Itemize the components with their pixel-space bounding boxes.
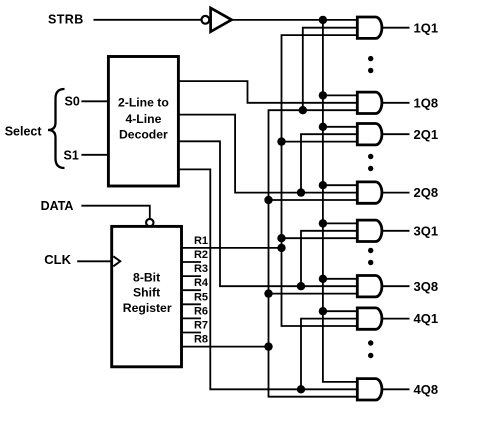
junction R1 stub bbox=[277, 244, 285, 252]
svg-text:4Q8: 4Q8 bbox=[414, 382, 439, 397]
svg-text:Decoder: Decoder bbox=[119, 128, 168, 142]
wire STRB branch 4Q8 bbox=[322, 381, 357, 383]
wire STRB vertical rail bbox=[322, 20, 324, 382]
wire row1 riser to 1Q1 mid bbox=[303, 28, 357, 111]
node decoder row4 net bbox=[178, 169, 357, 389]
junction R1 3Q1 bbox=[277, 234, 285, 242]
wire 3Q8 output bbox=[382, 285, 410, 287]
wire row2 riser to 2Q1 mid bbox=[301, 134, 357, 192]
svg-text:4Q1: 4Q1 bbox=[414, 311, 439, 326]
junction R8 3Q8 bbox=[264, 289, 272, 297]
svg-text:R7: R7 bbox=[194, 320, 208, 332]
svg-text:2-Line to: 2-Line to bbox=[118, 96, 169, 110]
svg-text:3Q1: 3Q1 bbox=[414, 223, 439, 238]
wire STRB branch 2Q1 bbox=[323, 126, 357, 128]
svg-text:1Q1: 1Q1 bbox=[414, 20, 439, 35]
svg-text:Shift: Shift bbox=[133, 286, 160, 300]
wire STRB branch 1Q8 bbox=[323, 94, 357, 96]
wire R8 branch 3Q8 bbox=[269, 293, 358, 295]
and-gate G5 3Q1 bbox=[357, 220, 382, 241]
wire R3 stub bbox=[182, 275, 202, 277]
wire row4 riser to 4Q1 mid bbox=[301, 319, 357, 390]
wire STRB branch 3Q1 bbox=[323, 222, 357, 224]
wire STRB rail to 1Q1 top bbox=[232, 19, 358, 21]
svg-text:8-Bit: 8-Bit bbox=[133, 271, 160, 285]
svg-text:Register: Register bbox=[123, 301, 172, 315]
Select brace bbox=[48, 89, 65, 168]
node decoder row2 net bbox=[178, 115, 357, 193]
wire S0 bbox=[81, 100, 108, 102]
and-gate G6 3Q8 bbox=[357, 276, 382, 297]
wire R1 stub bbox=[182, 247, 282, 249]
svg-text:Select: Select bbox=[5, 124, 43, 138]
svg-text:R3: R3 bbox=[194, 263, 208, 275]
svg-text:S0: S0 bbox=[65, 95, 80, 109]
wire R1 branch 2Q1 bbox=[282, 141, 358, 143]
and-gate G7 4Q1 bbox=[357, 308, 382, 329]
wire R8 branch 2Q8 bbox=[269, 199, 358, 201]
inverter input bubble bbox=[202, 16, 210, 24]
wire 2Q8 output bbox=[382, 192, 410, 194]
ellipsis group2 bbox=[368, 154, 373, 159]
wire R6 stub bbox=[182, 317, 202, 319]
wire S1 bbox=[81, 154, 108, 156]
svg-text:R6: R6 bbox=[194, 305, 208, 317]
svg-text:3Q8: 3Q8 bbox=[414, 279, 439, 294]
svg-text:1Q8: 1Q8 bbox=[414, 95, 439, 110]
and-gate G4 2Q8 bbox=[357, 182, 382, 203]
decoder U2 bbox=[108, 57, 178, 187]
svg-text:STRB: STRB bbox=[48, 13, 84, 27]
junction STRB rail bbox=[319, 16, 327, 24]
wire 1Q1 output bbox=[382, 27, 410, 29]
wire 4Q1 output bbox=[382, 318, 410, 320]
svg-text:R2: R2 bbox=[194, 249, 208, 261]
and-gate G3 2Q1 bbox=[357, 124, 382, 145]
svg-text:DATA: DATA bbox=[41, 199, 74, 213]
junction STRB 4Q1 bbox=[319, 307, 327, 315]
and-gate G2 1Q8 bbox=[357, 92, 382, 113]
svg-text:R8: R8 bbox=[194, 334, 208, 346]
wire DATA bbox=[81, 206, 149, 219]
svg-text:CLK: CLK bbox=[44, 252, 71, 267]
and-gate G1 1Q1 bbox=[357, 17, 382, 38]
junction riser3 bbox=[297, 282, 305, 290]
junction riser4 bbox=[297, 385, 305, 393]
node R8 rail bbox=[269, 110, 358, 397]
svg-text:R4: R4 bbox=[194, 277, 209, 289]
inverter U1 bbox=[211, 8, 232, 32]
junction STRB 3Q1 bbox=[319, 219, 327, 227]
wire R2 stub bbox=[182, 261, 202, 263]
svg-text:2Q1: 2Q1 bbox=[414, 127, 439, 142]
wire CLK bbox=[77, 260, 112, 262]
junction R8 stub bbox=[264, 342, 272, 350]
wire STRB branch 2Q8 bbox=[323, 184, 357, 186]
wire STRB branch 4Q1 bbox=[323, 310, 357, 312]
CLK edge triangle bbox=[113, 256, 120, 266]
node decoder row3 net bbox=[178, 141, 357, 286]
node R1 rail bbox=[282, 35, 358, 326]
svg-text:R5: R5 bbox=[194, 291, 208, 303]
junction riser2 bbox=[297, 188, 305, 196]
junction STRB 2Q1 bbox=[319, 123, 327, 131]
wire 2Q1 output bbox=[382, 133, 410, 135]
ellipsis group4 bbox=[368, 340, 373, 345]
ellipsis group1 bbox=[368, 56, 373, 61]
and-gate G8 4Q8 bbox=[357, 379, 382, 400]
wire R4 stub bbox=[182, 289, 202, 291]
svg-text:4-Line: 4-Line bbox=[125, 112, 161, 126]
wire R7 stub bbox=[182, 332, 202, 334]
wire STRB to inverter bbox=[94, 19, 202, 21]
svg-text:2Q8: 2Q8 bbox=[414, 185, 439, 200]
ellipsis group3 bbox=[368, 248, 373, 253]
register U3 bbox=[112, 226, 182, 366]
wire 4Q8 output bbox=[382, 388, 410, 390]
junction riser1 bbox=[299, 106, 307, 114]
DATA input bubble bbox=[146, 219, 153, 226]
wire 1Q8 output bbox=[382, 102, 410, 104]
wire R1 branch 3Q1 bbox=[282, 237, 358, 239]
wire STRB branch 3Q8 bbox=[323, 278, 357, 280]
svg-text:S1: S1 bbox=[64, 149, 79, 163]
junction STRB 3Q8 bbox=[319, 275, 327, 283]
wire R8 stub bbox=[182, 346, 269, 348]
wire row3 riser to 3Q1 mid bbox=[301, 231, 357, 286]
junction R1 2Q1 bbox=[277, 137, 285, 145]
wire R5 stub bbox=[182, 303, 202, 305]
junction STRB 1Q8 bbox=[319, 91, 327, 99]
svg-text:R1: R1 bbox=[194, 235, 208, 247]
node decoder row1 net bbox=[178, 81, 357, 103]
wire 3Q1 output bbox=[382, 230, 410, 232]
junction R8 2Q8 bbox=[264, 196, 272, 204]
junction STRB 2Q8 bbox=[319, 181, 327, 189]
